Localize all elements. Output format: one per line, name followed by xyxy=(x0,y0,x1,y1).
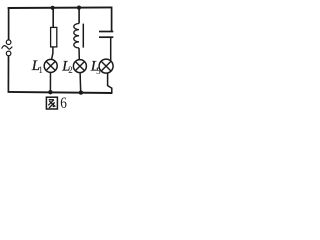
svg-text:3: 3 xyxy=(96,66,101,76)
capacitor C top plate xyxy=(99,31,113,33)
node dot top branch R xyxy=(51,6,55,10)
wire L1 to bottom xyxy=(49,72,51,92)
wire top xyxy=(8,6,113,9)
caption character tu (figure) hand drawn xyxy=(46,97,57,109)
inductor core bar xyxy=(82,24,84,48)
resistor R xyxy=(51,27,57,47)
wire coil to L2 xyxy=(78,48,80,60)
svg-text:2: 2 xyxy=(68,65,73,75)
wire L2 to bottom xyxy=(79,73,82,93)
svg-text:1: 1 xyxy=(38,65,43,75)
wire branch2 upper xyxy=(78,8,80,24)
wire left lower xyxy=(7,56,9,92)
lamp L3 xyxy=(99,59,113,73)
wire resistor to L1 xyxy=(52,47,53,60)
lamp L1 xyxy=(44,59,57,72)
wire L3 to bottom right corner xyxy=(108,73,112,93)
svg-text:6: 6 xyxy=(60,95,67,112)
AC source G terminal upper xyxy=(6,40,11,45)
node dot bottom branch2 xyxy=(79,90,83,94)
lamp L2 xyxy=(73,60,86,73)
node dot top branch L xyxy=(77,6,81,10)
inductor coil xyxy=(74,24,79,48)
wire left upper xyxy=(8,8,10,40)
AC source tilde xyxy=(2,46,13,49)
wire branch1 upper xyxy=(52,8,54,28)
capacitor C bottom plate xyxy=(99,36,113,38)
wire bottom xyxy=(8,92,113,93)
wire right upper xyxy=(111,8,113,32)
wire capacitor to L3 xyxy=(110,37,112,61)
node dot bottom branch1 xyxy=(48,90,52,94)
AC source terminal lower xyxy=(6,51,11,56)
